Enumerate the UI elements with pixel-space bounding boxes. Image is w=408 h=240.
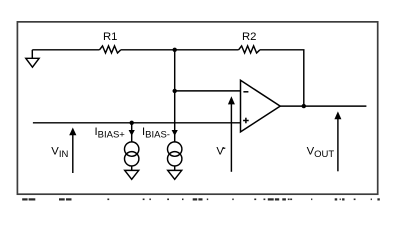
op-amp U1 xyxy=(241,80,281,132)
current source IBIAS+ xyxy=(125,123,139,171)
current source IBIAS- (hangs from inverting node wire) xyxy=(168,91,182,170)
resistor R2 xyxy=(239,46,260,53)
caption text fragments (line of text cut off at figure bottom) xyxy=(22,198,380,200)
wire node A to R2 xyxy=(175,49,239,51)
svg-text:V: V xyxy=(216,146,224,158)
wire op-amp output xyxy=(280,105,366,107)
wire node A down to inverting node xyxy=(174,50,176,91)
resistor R1 xyxy=(100,46,121,53)
node C (junction dot IBIAS+) xyxy=(130,121,134,125)
ground (top-left) xyxy=(26,50,39,67)
ground under IBIAS+ xyxy=(125,170,139,179)
svg-text:R1: R1 xyxy=(103,31,117,43)
wire ground to R1 xyxy=(32,49,99,51)
node D (output junction dot) xyxy=(302,104,306,108)
wire R2 to output node xyxy=(260,50,304,106)
arrow VOUT xyxy=(334,111,341,171)
arrow VIN xyxy=(69,128,76,174)
svg-text:R2: R2 xyxy=(242,31,256,43)
wire non-inverting input rail xyxy=(33,122,241,124)
node A (junction dot R1/R2/feedback) xyxy=(173,48,177,52)
wire node B to op-amp inverting input xyxy=(175,90,241,92)
ground under IBIAS- xyxy=(168,170,182,179)
wire R1 to node A xyxy=(121,49,175,51)
node B (junction dot inverting input) xyxy=(173,89,177,93)
arrow V- (negative supply) xyxy=(228,96,235,172)
